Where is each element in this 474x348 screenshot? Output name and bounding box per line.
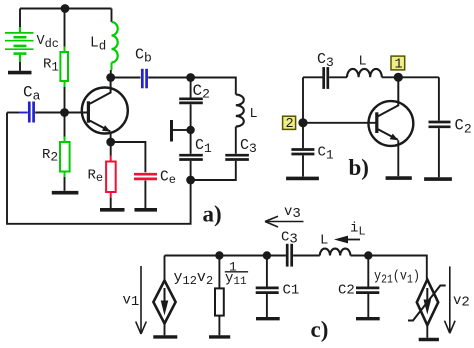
svg-text:C1: C1: [195, 137, 212, 156]
node collector: [106, 73, 115, 82]
label box 2: [283, 116, 296, 129]
svg-text:c): c): [311, 317, 329, 342]
ground y21 source: [419, 338, 439, 341]
svg-text:C3: C3: [240, 137, 257, 156]
controlled source y21(v1) (diamond, nonlinear): [417, 280, 438, 326]
wire resistor top: [218, 256, 220, 289]
svg-text:L: L: [359, 54, 367, 69]
resistor R2: [64, 137, 66, 143]
inductor L b): [347, 69, 382, 77]
ground battery: [8, 71, 32, 75]
capacitor Ce: [134, 173, 157, 176]
svg-text:L: L: [320, 233, 328, 249]
transistor Q a) emitter stroke with arrow: [90, 121, 110, 132]
capacitor Cb: [111, 77, 141, 79]
transistor Q b) collector stroke: [378, 77, 398, 116]
wire Ce bottom: [144, 181, 146, 209]
node C1 bottom: [186, 176, 195, 185]
inductor Ld: [112, 22, 118, 63]
transistor Q a) base bar: [87, 101, 90, 122]
svg-text:v2: v2: [453, 293, 470, 311]
svg-text:C3: C3: [281, 230, 298, 248]
wire Ld to collector node: [110, 70, 112, 78]
capacitor C2 b): [429, 121, 451, 124]
wire emitter b to ground: [397, 140, 399, 176]
wire b top left: [303, 76, 323, 78]
wire C3 to L b: [329, 76, 347, 78]
wire base: [65, 112, 88, 114]
wire R2 top: [64, 113, 66, 137]
capacitor C3 b): [322, 67, 325, 89]
capacitor C1 b): [291, 148, 314, 151]
capacitor C3 c): [286, 244, 289, 267]
wire L to C3: [235, 127, 237, 154]
arrow iL: [345, 239, 360, 241]
svg-text:a): a): [203, 202, 222, 227]
ground C2 c): [356, 317, 380, 320]
wire L top branch: [191, 78, 236, 95]
ground Ce: [135, 208, 158, 212]
node resistor column: [215, 251, 223, 259]
svg-text:Ce: Ce: [160, 170, 176, 188]
wire C1 c top: [266, 256, 268, 287]
transistor Q b) circle: [369, 101, 414, 146]
wire R1 top: [64, 9, 66, 47]
svg-text:b): b): [349, 155, 369, 180]
wire C2 b bottom: [438, 128, 440, 177]
node 2: [298, 118, 307, 127]
wire y21 source bottom: [426, 325, 428, 338]
ground y12 source: [153, 335, 177, 338]
resistor R1: [64, 47, 66, 53]
svg-text:2: 2: [286, 117, 294, 132]
wire Re bottom: [110, 198, 112, 208]
svg-text:Vdc: Vdc: [37, 34, 60, 51]
wire emitter to Re: [110, 142, 112, 156]
node base: [60, 108, 69, 117]
ground C2 b): [424, 177, 452, 181]
ground mid (sideways): [170, 120, 173, 142]
wire c rail right: [350, 256, 426, 280]
svg-text:v3: v3: [284, 204, 301, 222]
wire C2 top: [190, 78, 192, 98]
inductor L c): [320, 249, 351, 256]
node top rail junction: [61, 4, 70, 13]
wire C2 to C1: [190, 104, 192, 154]
wire c rail left: [165, 255, 286, 257]
node C2 c column: [364, 251, 372, 259]
wire emitter to Ce: [111, 142, 146, 172]
svg-text:L: L: [250, 107, 258, 122]
wire resistor bottom: [218, 316, 220, 336]
resistor 1/y11: [215, 288, 224, 315]
node mid ground: [186, 126, 194, 134]
wire Ld top: [111, 9, 113, 23]
capacitor C1: [179, 154, 203, 157]
svg-text:C2: C2: [338, 283, 355, 299]
wire b left column: [302, 77, 304, 123]
wire feedback loop: [7, 113, 191, 224]
wire R1 bottom to base node: [64, 87, 66, 113]
wire R2 bottom: [64, 177, 66, 191]
capacitor C1 c): [256, 287, 279, 290]
arrow v3: [265, 216, 304, 227]
svg-text:R2: R2: [42, 147, 58, 164]
wire y12 source top: [164, 256, 166, 282]
svg-text:Cb: Cb: [135, 47, 152, 66]
wire C1 c bottom: [266, 294, 268, 317]
svg-text:C1: C1: [283, 283, 300, 299]
label box 1: [391, 56, 405, 70]
capacitor C2 c): [356, 287, 379, 290]
arrow v1: [136, 266, 147, 334]
arrow v2: [445, 266, 456, 333]
transistor Q b) emitter stroke with arrow: [378, 129, 398, 140]
wire y12 source bottom: [164, 324, 166, 336]
wire C3 to L c: [293, 255, 320, 257]
wire top rail a: [20, 8, 112, 10]
wire C2 c bottom: [367, 294, 369, 317]
node emitter: [106, 138, 115, 147]
controlled source y12v2 (diamond): [153, 281, 175, 324]
transistor Q a) collector stroke: [90, 78, 111, 104]
wire C2 c top: [367, 256, 369, 287]
wire C1 bottom: [190, 161, 192, 180]
svg-text:v1: v1: [123, 293, 140, 311]
wire battery top: [19, 9, 21, 28]
inductor L a): [236, 95, 244, 127]
capacitor C2: [179, 97, 203, 100]
transistor Q b) base bar: [375, 112, 378, 133]
node Cb right: [186, 73, 195, 82]
transistor Q a) circle: [82, 88, 128, 134]
wire C1 b top: [302, 123, 304, 148]
wire L to corner b: [382, 76, 439, 78]
svg-text:Re: Re: [88, 168, 104, 186]
node C1 c column: [263, 251, 271, 259]
capacitor Ca: [7, 112, 19, 114]
ground resistor: [209, 335, 230, 338]
ground Re: [100, 208, 125, 212]
ground R2: [52, 191, 79, 195]
wire C2 b top: [438, 77, 440, 120]
svg-text:1: 1: [395, 57, 403, 72]
svg-text:y21(v1): y21(v1): [374, 269, 420, 287]
wire C1 b bottom: [302, 155, 304, 176]
wire base b: [303, 122, 376, 124]
node 1: [394, 73, 403, 82]
ground C1 b): [286, 177, 319, 181]
svg-text:C3: C3: [317, 51, 334, 70]
capacitor C3 a): [225, 154, 249, 157]
battery Vdc: [5, 27, 34, 62]
ground emitter b): [386, 176, 412, 180]
resistor Re: [110, 156, 112, 162]
ground C1 c): [256, 317, 280, 320]
svg-text:C1: C1: [318, 145, 334, 163]
wire battery to ground: [19, 62, 21, 71]
wire C3 bottom to node: [191, 161, 236, 180]
